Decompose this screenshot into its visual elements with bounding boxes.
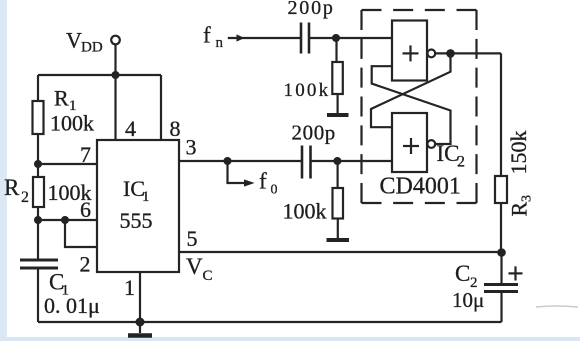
svg-text:C: C <box>455 261 470 286</box>
wire bottom rail <box>38 321 502 323</box>
resistor 100k row1 <box>332 62 343 94</box>
svg-text:CD4001: CD4001 <box>380 174 461 200</box>
svg-text:R: R <box>54 86 69 111</box>
gate U1B plus <box>403 138 419 154</box>
capacitor C1 <box>20 260 58 268</box>
label fn <box>203 23 224 52</box>
svg-text:555: 555 <box>120 208 153 233</box>
svg-text:8: 8 <box>170 116 181 141</box>
wire fn input <box>228 37 301 39</box>
wire cross gate1out to gate2in <box>371 53 451 127</box>
svg-text:6: 6 <box>80 197 91 222</box>
wire pin3 after cap <box>311 160 393 162</box>
svg-text:10μ: 10μ <box>452 288 484 312</box>
gate U1B NOR <box>392 113 427 172</box>
label IC2 <box>437 141 466 171</box>
wire pin 7 <box>38 163 97 165</box>
wire R3 top <box>500 53 502 176</box>
resistor R1 <box>33 101 44 134</box>
wire f0 branch <box>228 161 247 183</box>
node f0 tap <box>224 157 232 165</box>
svg-text:2: 2 <box>457 154 465 171</box>
wire row1 resistor bottom <box>337 94 339 113</box>
svg-text:f: f <box>259 169 267 194</box>
svg-text:100k: 100k <box>50 111 94 136</box>
label C1 <box>49 270 69 299</box>
svg-text:1: 1 <box>142 189 150 205</box>
wire R2 bottom to C1 <box>37 207 39 259</box>
node VDD junction <box>112 71 120 79</box>
gate U1B bubble <box>427 140 435 148</box>
svg-text:3: 3 <box>186 135 197 160</box>
capacitor C2 <box>484 285 518 292</box>
wire R1 top <box>37 75 39 101</box>
wire R1 bottom <box>37 134 39 164</box>
svg-text:C: C <box>203 268 213 284</box>
gate U1A bubble <box>427 50 435 58</box>
wire pin 6 <box>38 219 97 221</box>
svg-text:V: V <box>66 28 82 53</box>
wire VDD stub <box>114 45 116 76</box>
gate U1A plus <box>403 45 419 61</box>
svg-text:f: f <box>203 23 211 48</box>
wire row1 resistor top <box>335 38 337 62</box>
wire top rail VDD <box>38 74 161 76</box>
wire pin 2 route <box>65 220 97 247</box>
arrow f0 <box>244 179 255 186</box>
label IC1 <box>123 176 150 205</box>
wire C2 top <box>500 253 502 284</box>
label VC <box>186 254 213 284</box>
wire pin 5 VC <box>179 251 502 253</box>
svg-text:150k: 150k <box>506 131 531 175</box>
arrow fn <box>237 34 245 41</box>
wire pin 8 <box>160 75 162 140</box>
gate U1A NOR <box>392 21 427 81</box>
wire C1 bottom <box>37 268 39 322</box>
svg-text:100k: 100k <box>284 80 331 101</box>
svg-text:V: V <box>186 254 203 279</box>
wire C2 bottom <box>500 292 502 322</box>
label C2 <box>455 261 478 291</box>
label R3 rotated <box>507 195 535 217</box>
resistor 100k row2 <box>333 188 344 219</box>
wire cross gate2out to gate1in <box>372 66 451 144</box>
svg-text:100k: 100k <box>283 199 327 224</box>
svg-text:0. 01μ: 0. 01μ <box>44 293 100 318</box>
dashed box CD4001 <box>362 10 477 203</box>
svg-text:1: 1 <box>124 275 135 300</box>
svg-text:7: 7 <box>80 142 91 167</box>
wire pin 1 <box>139 272 141 322</box>
wire row2 resistor bottom <box>337 219 339 239</box>
node row2 divider <box>333 157 341 165</box>
C2 polarity plus <box>509 266 523 280</box>
ground row2 <box>327 238 350 242</box>
ground <box>128 322 152 336</box>
resistor R3 <box>495 176 507 203</box>
svg-text:200p: 200p <box>292 121 336 145</box>
wire row2 resistor top <box>337 161 339 188</box>
node row1 divider <box>332 34 340 42</box>
label f0 <box>259 169 278 198</box>
svg-text:R: R <box>507 202 532 217</box>
node pin7 <box>34 160 42 168</box>
node ground junction <box>136 318 145 327</box>
wire pin 4 <box>114 75 116 140</box>
wire gate1 output <box>435 52 501 54</box>
wire R2 top <box>37 164 39 177</box>
svg-text:n: n <box>216 35 224 51</box>
svg-text:0: 0 <box>271 183 278 198</box>
label R1 <box>54 86 77 115</box>
wire fn after cap <box>309 37 392 39</box>
wire R3 bottom <box>500 203 502 253</box>
resistor R2 <box>33 177 44 207</box>
svg-text:5: 5 <box>187 226 198 251</box>
capacitor C4 200p row2 <box>302 146 311 179</box>
label VDD <box>66 28 103 56</box>
svg-text:2: 2 <box>21 189 29 206</box>
scan smudge <box>536 306 578 307</box>
node VC C2 <box>497 248 506 257</box>
terminal VDD <box>111 36 120 45</box>
svg-text:R: R <box>4 175 20 200</box>
node pin6 <box>34 216 42 224</box>
capacitor C3 200p row1 <box>301 23 309 54</box>
ground row1 <box>327 113 349 117</box>
svg-text:4: 4 <box>125 116 136 141</box>
node pin6 branch <box>61 216 69 224</box>
op-amp IC1 555 box <box>97 140 179 272</box>
label R2 <box>4 175 29 206</box>
svg-text:200p: 200p <box>288 0 335 19</box>
wire pin 3 <box>179 160 302 162</box>
node gate1 output <box>446 49 455 58</box>
svg-text:3: 3 <box>520 195 535 202</box>
svg-text:DD: DD <box>81 40 103 56</box>
svg-text:2: 2 <box>80 252 91 277</box>
